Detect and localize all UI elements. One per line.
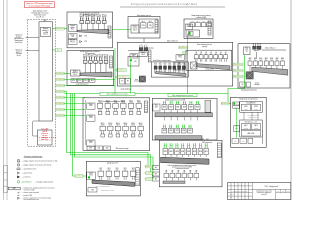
cabinet: Шкаф обработки сигналов (B) (152, 98, 217, 140)
svg-text:0-1: 0-1 (260, 60, 262, 62)
svg-text:БП: БП (121, 81, 123, 83)
блок БП cabinet1 (68, 34, 77, 39)
svg-text:БВ: БВ (155, 167, 157, 169)
svg-text:МК-2: МК-2 (132, 56, 135, 58)
cabinet1 striped column (108, 26, 111, 38)
svg-text:питания: питания (134, 81, 139, 83)
module SRV4 (209, 52, 213, 62)
module SRV3 (204, 52, 208, 62)
module D1.2 (169, 143, 173, 157)
wire label Шина Ethernet L3 (56, 84, 65, 87)
A left module 3 (87, 140, 95, 146)
module обмена cabinet2 (70, 70, 80, 76)
H mid box 2 (174, 62, 184, 70)
svg-text:МО-6: МО-6 (89, 117, 93, 119)
svg-text:ЗИП: ЗИП (106, 148, 109, 150)
module SRV1 (194, 52, 198, 62)
wire label y77 (117, 76, 129, 79)
svg-text:Блок розеток — сеть: Блок розеток — сеть (245, 121, 258, 123)
C backplane wedge (92, 180, 135, 186)
svg-text:межблочного монтажа типа МКП: межблочного монтажа типа МКП (172, 167, 192, 169)
svg-text:Шина: Шина (183, 53, 187, 55)
module I1.7 (280, 57, 284, 71)
wire label on питание entry (222, 102, 230, 105)
H2 backplane wedge (156, 72, 187, 77)
svg-text:МПВ: МПВ (176, 107, 179, 109)
svg-text:МПВ: МПВ (189, 107, 192, 109)
svg-text:ТП: ТП (170, 145, 172, 147)
module A2.3 (115, 123, 120, 137)
svg-text:модем ГГС: модем ГГС (254, 50, 261, 52)
module I1.3 (259, 57, 263, 71)
label: приёмные антенны (нижний) (15, 49, 22, 56)
module B2.2 (168, 125, 173, 133)
svg-text:БП: БП (242, 84, 244, 86)
svg-text:МПВ: МПВ (189, 130, 192, 132)
svg-text:ввода: ввода (235, 128, 239, 130)
legend item cup (18, 195, 32, 197)
wire L3 long to vertical x115 (64, 85, 115, 87)
svg-text:ЗИП — ЗИП: ЗИП — ЗИП (201, 139, 208, 141)
G left boxes upper (233, 102, 240, 109)
cabinet: Шкаф электропитания (G) (231, 97, 267, 147)
svg-text:ТП: ТП (205, 145, 207, 147)
G left box lower (234, 126, 240, 132)
block F module cells (190, 21, 212, 27)
module B2.3 (175, 125, 180, 133)
svg-text:ТП: ТП (170, 125, 172, 127)
module C1.4 (122, 168, 128, 180)
I bus 10BaseT label (262, 48, 286, 50)
svg-text:БП врт: БП врт (71, 34, 76, 36)
D small bar (163, 181, 185, 183)
module D1.6 (192, 143, 196, 157)
module B1.1 (162, 101, 167, 113)
svg-text:ТП: ТП (177, 102, 179, 104)
cabinet: Шкаф тракта УЗ (C) (86, 161, 140, 196)
svg-text:антенны: антенны (16, 51, 22, 53)
I bottom box 2 (247, 82, 251, 87)
wire label y70 (117, 69, 127, 72)
H3 sub-block серверы (186, 44, 232, 71)
svg-text:01: 01 (195, 53, 197, 55)
B backplane bar 1 (155, 113, 212, 117)
svg-text:МПВ: МПВ (182, 130, 185, 132)
D middle caption (168, 164, 197, 170)
svg-text:РРС: РРС (84, 41, 87, 43)
module приёмный А9 (98, 55, 103, 74)
G bottom boxes (232, 138, 253, 143)
A left module 2 (87, 115, 95, 121)
svg-text:обмена: обмена (177, 64, 182, 66)
svg-text:БП-2: БП-2 (91, 80, 94, 82)
svg-text:ТП: ТП (176, 145, 178, 147)
H3 backplane wedge (196, 64, 230, 70)
cabinet: Шкаф приёмных устройств 1 (67, 12, 113, 48)
svg-text:Модуль: Модуль (177, 63, 182, 65)
label: приёмные антенны (верхний) (14, 35, 24, 44)
H top-left module symbols (139, 44, 147, 51)
block E striped column (155, 20, 158, 33)
svg-text:ГБЦ "Цифровой": ГБЦ "Цифровой" (264, 185, 278, 188)
D left attach box 1 (152, 166, 159, 170)
block F left module box (186, 24, 193, 30)
svg-text:0-1: 0-1 (249, 60, 251, 62)
svg-text:0-1: 0-1 (254, 60, 256, 62)
wire block E down to H (143, 38, 145, 42)
B left module box (153, 104, 160, 111)
svg-text:ЗИП: ЗИП (89, 148, 92, 150)
svg-text:РРС: РРС (84, 35, 87, 37)
wire stub into H at y70 (115, 69, 117, 71)
module A1.2 (105, 100, 111, 114)
svg-text:МПВ: МПВ (163, 107, 166, 109)
svg-text:МО-1: МО-1 (71, 29, 75, 31)
wire L4 down-right to ЗИП label 1 (64, 92, 152, 167)
dashed enclosure БПП (28, 20, 56, 147)
svg-text:МД: МД (134, 61, 136, 63)
module SRV6 (219, 52, 223, 62)
svg-text:обмена: обмена (133, 27, 138, 29)
module приёмный А8 (93, 55, 98, 74)
block: Шкаф ввода данных (F) (184, 14, 213, 38)
module A2.4 (123, 123, 128, 137)
D right striped column (217, 143, 221, 158)
D left attach box 3 (152, 177, 159, 181)
module E2 (148, 21, 154, 28)
wire L1 to cabinet2 module (64, 73, 70, 75)
legend item 3 (17, 167, 36, 170)
svg-text:МС-4: МС-4 (179, 57, 182, 59)
module C1.3 (114, 168, 120, 180)
module D1.7 (198, 143, 202, 157)
svg-text:ЗИП: ЗИП (91, 190, 94, 192)
wire label Шина Ethernet L8 (56, 114, 65, 117)
module ET3 (164, 63, 167, 73)
note box (red) top-left (24, 2, 54, 8)
cabinet2 striped column (110, 56, 113, 68)
cabinet ЦВУ tall rack (39, 22, 53, 121)
H3 module X box (191, 62, 197, 69)
блок МВ cabinet1 (68, 39, 77, 44)
wire antenna label 2 to rack (25, 50, 39, 52)
svg-text:Модуль: Модуль (89, 116, 94, 118)
svg-text:БП-2: БП-2 (78, 80, 81, 82)
module приёмный А4 (96, 15, 101, 30)
module C1.2 (106, 168, 112, 180)
svg-text:— кабель соединитель на 2х узл: — кабель соединитель на 2х узлах между (22, 197, 52, 199)
svg-text:Размеры (Ш х В х Г), мм: Размеры (Ш х В х Г), мм (32, 12, 49, 14)
wire label Шина Ethernet L4 (56, 90, 65, 93)
svg-text:МКП: МКП (13, 188, 16, 190)
module приёмный А10 (104, 55, 109, 74)
wire label Шина Ethernet L7 (56, 108, 65, 111)
module B2.1 (162, 125, 167, 133)
H sub-box with green module (128, 56, 139, 66)
svg-text:0-1: 0-1 (281, 60, 283, 62)
H bottom-left box 2 (125, 78, 130, 84)
cabinet1 symbol marks (80, 35, 88, 43)
svg-text:Изм Лист № докум. Подп. Дата: Изм Лист № докум. Подп. Дата (233, 191, 248, 193)
svg-text:ТП: ТП (197, 102, 199, 104)
wire label ЦВУ y50 (56, 49, 62, 52)
backplane wedge cabinet1 (77, 29, 109, 34)
svg-text:со ХВВ: со ХВВ (43, 32, 48, 34)
module приёмный А5 (102, 15, 107, 30)
module I1.1 (248, 57, 252, 71)
module обмена блока Е (131, 25, 139, 33)
wire vertical x115 to bus (114, 48, 116, 94)
svg-text:изделия: изделия (42, 137, 48, 139)
svg-text:ТП: ТП (188, 145, 190, 147)
svg-text:— модуль общего сигнала (платы: — модуль общего сигнала (платы) в блоках… (22, 160, 58, 162)
module A1.5 (128, 100, 134, 114)
module A2.5 (130, 123, 135, 137)
svg-text:Модуль: Модуль (178, 55, 183, 57)
I top module symbols (253, 43, 261, 52)
svg-text:ПРМ: ПРМ (142, 25, 145, 27)
bus label Шина информационного обмена (правый) (168, 94, 197, 97)
module I1.5 (270, 57, 274, 71)
svg-text:01: 01 (210, 53, 212, 55)
wire L5 to шкаф обработки A (64, 97, 85, 99)
module C1.5 (130, 168, 136, 180)
module ET4 (168, 63, 171, 73)
module ET1 (154, 63, 157, 73)
wire stub into H at y77 (115, 76, 117, 78)
module D1.1 (163, 143, 167, 157)
svg-text:МПВ: МПВ (205, 151, 208, 153)
backplane wedge cabinet2 (80, 72, 112, 77)
H mid box 1 (176, 55, 184, 61)
svg-text:панель: панель (255, 82, 260, 84)
svg-text:МПВ: МПВ (163, 130, 166, 132)
svg-text:(4 кан.): (4 кан.) (43, 34, 48, 36)
svg-text:Шина 10 Base-T: Шина 10 Base-T (167, 41, 178, 43)
svg-text:объед. панель: объед. панель (205, 69, 214, 71)
svg-text:КМ: КМ (145, 44, 147, 46)
module D2.5 (188, 170, 193, 180)
svg-text:МПВ: МПВ (176, 130, 179, 132)
svg-text:БВ: БВ (155, 174, 157, 176)
svg-text:Структурная схема связи: Структурная схема связи (256, 190, 272, 192)
svg-text:Модуль: Модуль (89, 141, 94, 143)
sheet frame right line (290, 0, 292, 200)
svg-text:розетки: розетки (254, 127, 259, 129)
svg-text:(4 шт.): (4 шт.) (17, 55, 22, 57)
C bottom box (88, 188, 114, 192)
svg-text:МГ-1: МГ-1 (245, 49, 248, 51)
module приёмный А6 (83, 55, 88, 74)
H модуль box2 (130, 54, 138, 58)
svg-text:МПВ: МПВ (187, 151, 190, 153)
svg-text:обмена: обмена (70, 27, 75, 29)
svg-text:ТП: ТП (194, 145, 196, 147)
module приёмный А7 (88, 55, 93, 74)
wire label Шина Ethernet L1 (56, 72, 65, 75)
svg-text:Модуль: Модуль (131, 54, 136, 56)
svg-text:УКВ верх: УКВ верх (16, 53, 22, 55)
wire green vertical in A (84, 100, 86, 145)
module B2.4 (181, 125, 186, 133)
module ET7 (182, 63, 185, 73)
legend item v (18, 191, 39, 194)
wire label ЦВУ-cab1 (56, 27, 65, 30)
svg-text:МО-6: МО-6 (89, 142, 93, 144)
module E1 (141, 21, 147, 28)
wire: ЦВУ stub y50 (53, 49, 63, 51)
module B1.3 (175, 101, 180, 113)
svg-text:Модуль: Модуль (89, 104, 94, 106)
module D1.5 (186, 143, 190, 157)
drawing title: Структурная схема связи (блок ДГ №1) (120, 2, 225, 7)
svg-text:ПРД: ПРД (149, 25, 152, 27)
module ET2 (159, 63, 162, 73)
block F green module (188, 32, 193, 36)
svg-text:ТП: ТП (200, 145, 202, 147)
G right vertical element (261, 130, 263, 144)
legend item 5 (17, 176, 30, 179)
D wire label 1 (146, 165, 153, 168)
cabinet: Шкаф обработки сигналов (A) (83, 98, 150, 151)
module D2.2 (170, 170, 175, 180)
wire bundle 4 down to шкаф УЗ (73, 94, 87, 177)
module ET6 (178, 63, 181, 73)
svg-text:Блок обработки данных: Блок обработки данных (197, 44, 212, 46)
B backplane bar 2 (155, 136, 202, 140)
A left module 1 (87, 103, 95, 109)
D left attach box 2 (152, 172, 159, 176)
svg-text:Модуль: Модуль (70, 25, 75, 27)
H bottom-left box 1 (120, 78, 125, 84)
svg-text:МПВ: МПВ (199, 151, 202, 153)
H module коммутатора box (139, 52, 147, 56)
svg-text:ТП: ТП (190, 102, 192, 104)
B bar1 legs (165, 117, 198, 121)
module ET5 (173, 63, 176, 73)
sheet frame left outer line (3, 0, 5, 200)
module D2.3 (176, 170, 181, 180)
label: Блок приёмных плат (32, 11, 49, 19)
cabinet: Шкаф приёмных устройств 2 (67, 50, 114, 85)
svg-text:МПВ: МПВ (169, 130, 172, 132)
svg-text:ТП: ТП (183, 125, 185, 127)
svg-text:МУЗ-1: МУЗ-1 (89, 174, 93, 176)
svg-text:ТП: ТП (184, 102, 186, 104)
svg-text:ЗИП: ЗИП (97, 148, 100, 150)
I bottom box 1 (240, 82, 246, 87)
wire: cabinet1 to блок Е (113, 29, 132, 31)
block: Шкаф коммутации (H) (117, 41, 232, 86)
svg-text:обмена 1Г: обмена 1Г (42, 30, 49, 32)
svg-text:МПВ: МПВ (164, 151, 167, 153)
H bottom-left caption (134, 79, 139, 83)
module: Модуль обмена 1Г со ХВВ (40, 27, 50, 36)
svg-text:розетки: розетки (244, 127, 249, 129)
svg-text:ДВ/СВ/КВ низ: ДВ/СВ/КВ низ (14, 38, 24, 40)
H top-left connector line (128, 50, 148, 52)
svg-text:Модуль: Модуль (73, 70, 78, 72)
block: Шкаф приёма данных (Е) (128, 15, 160, 38)
G sub-box 2 (240, 120, 263, 137)
legend item 2 (17, 164, 52, 167)
I backplane wedge (252, 67, 288, 75)
svg-text:Модуль: Модуль (43, 28, 48, 30)
svg-text:0-1: 0-1 (265, 60, 267, 62)
svg-text:РРС-12: РРС-12 (70, 41, 75, 43)
sheet frame left inner line (6, 0, 8, 200)
svg-text:блок: блок (242, 141, 245, 143)
svg-text:ЩР-1: ЩР-1 (244, 125, 248, 127)
G mid caption (247, 113, 259, 118)
svg-text:обмена: обмена (187, 26, 192, 28)
svg-text:UPS-1: UPS-1 (244, 106, 248, 108)
legend item backplane (8, 186, 55, 191)
module SRV7 (224, 52, 228, 62)
G sub-box 1 (240, 101, 263, 112)
svg-text:МО-6: МО-6 (89, 105, 93, 107)
svg-text:— усилитель: — усилитель (22, 176, 31, 178)
legend item triangle2 (17, 197, 51, 201)
module I1.4 (264, 57, 268, 71)
svg-text:Лист: Лист (282, 191, 285, 193)
svg-text:24В: 24В (71, 36, 73, 38)
box Блок ЦВУ (red annotations) (38, 128, 58, 145)
I left module box (244, 47, 250, 55)
G connectors (244, 112, 258, 120)
module B1.4 (182, 101, 187, 113)
wire: цепь right block to bus (228, 55, 245, 104)
module C1.1 (98, 168, 104, 180)
A bottom ЗИП boxes (87, 146, 129, 150)
svg-text:(2 х 3F -2): (2 х 3F -2) (37, 16, 44, 18)
svg-text:состава: состава (42, 135, 48, 137)
svg-text:Шина: Шина (57, 50, 61, 52)
module D2.6 (194, 170, 199, 180)
module I1.2 (253, 57, 257, 71)
svg-text:(вибраторы): (вибраторы) (15, 40, 24, 42)
D wire label 3 (146, 178, 153, 181)
svg-text:МПВ: МПВ (196, 107, 199, 109)
I dense module box (246, 72, 253, 79)
wire label Шина Ethernet L6 (56, 102, 65, 105)
svg-text:антенны: антенны (16, 36, 22, 38)
svg-text:БВ: БВ (127, 81, 129, 83)
svg-text:Модуль: Модуль (187, 24, 192, 26)
svg-text:ЦВУ-М: ЦВУ-М (42, 131, 48, 133)
C right striped column (136, 168, 140, 186)
H2 sub-block Ethernet коммутаторы (151, 59, 188, 77)
svg-text:— модуль общего сигнала (уст.: — модуль общего сигнала (уст. для блока) (22, 164, 52, 166)
svg-text:ТП: ТП (176, 125, 178, 127)
module D1.8 (204, 143, 208, 157)
svg-text:(сервер): (сервер) (202, 46, 208, 48)
module A1.6 (136, 100, 142, 114)
H top-left striped column (148, 50, 151, 62)
legend item 1 (17, 160, 57, 163)
module приёмный А3 (91, 15, 96, 30)
svg-text:МО-3: МО-3 (133, 29, 137, 31)
svg-text:КЕ-10: КЕ-10 (141, 54, 145, 56)
wire label on x187.6 upper (179, 46, 188, 49)
svg-text:МК-7: МК-7 (155, 106, 158, 108)
block E inner chassis (139, 19, 158, 33)
I wire down from bus (255, 52, 257, 58)
svg-text:Листов: Листов (286, 191, 290, 193)
D wire label 2 (146, 172, 153, 175)
module A1.4 (121, 100, 127, 114)
svg-text:МПВ: МПВ (181, 151, 184, 153)
